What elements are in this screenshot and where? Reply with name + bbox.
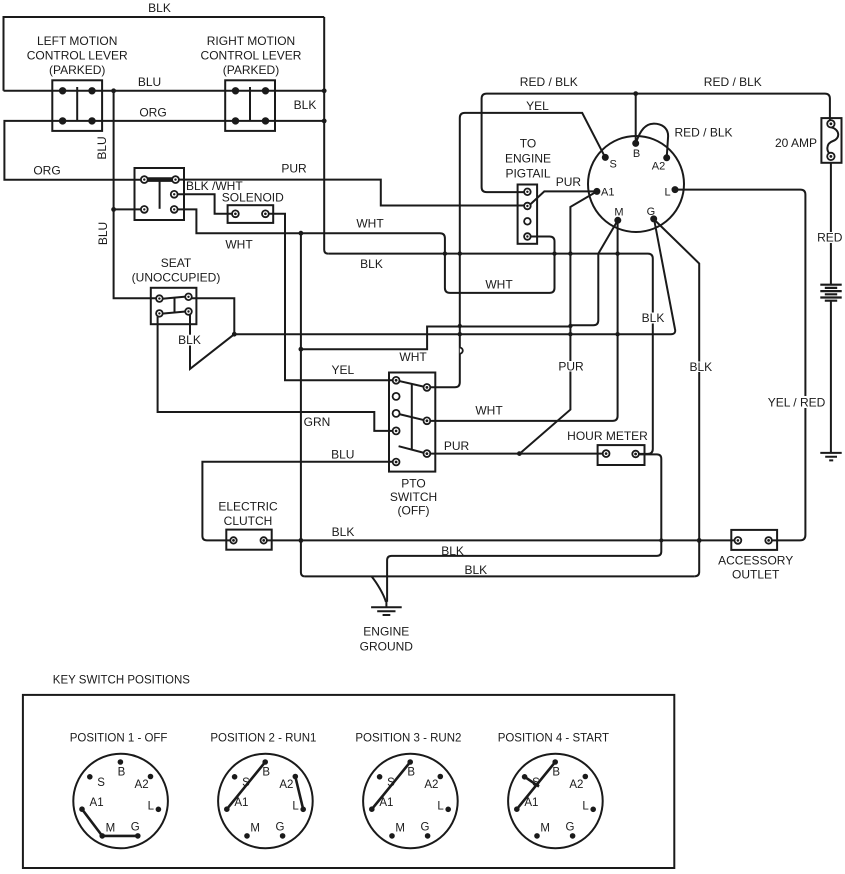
- wire BLK1 clutch to accessory outlet: [267, 539, 735, 541]
- svg-text:BLK: BLK: [464, 563, 487, 577]
- wire PTO R2 up to key switch M vertical: [430, 222, 617, 421]
- node PUR joins hour meter wire: [517, 451, 522, 456]
- wire WHT from interlock lower-right, loop to pigtail T4: [178, 209, 555, 293]
- key position 2 terminal L: [300, 807, 306, 813]
- accessory outlet terminals: [735, 537, 742, 544]
- svg-text:OUTLET: OUTLET: [732, 568, 780, 582]
- svg-text:YEL: YEL: [526, 99, 549, 113]
- wire B vertical to RED/BLK bus: [635, 94, 637, 141]
- key switch terminal B: [633, 141, 638, 146]
- svg-text:PUR: PUR: [281, 162, 307, 176]
- key switch terminal A2: [664, 155, 669, 160]
- svg-text:G: G: [647, 206, 656, 218]
- wire BLK/WHT to solenoid: [178, 194, 232, 214]
- svg-text:A1: A1: [90, 797, 104, 809]
- key position 2 terminal G: [280, 833, 286, 839]
- node BLK1 x661 junction: [659, 538, 663, 542]
- svg-text:G: G: [421, 822, 430, 834]
- key position 4 terminal A1: [514, 806, 520, 812]
- wire battery to chassis ground: [830, 301, 832, 453]
- chassis ground symbol (battery): [820, 453, 841, 461]
- engine ground symbol: [371, 607, 402, 615]
- svg-text:ORG: ORG: [33, 164, 60, 178]
- PTO terminals left: [393, 377, 400, 384]
- svg-text:BLK: BLK: [148, 1, 171, 15]
- electric clutch terminals: [230, 537, 236, 543]
- svg-text:BLU: BLU: [96, 222, 110, 245]
- svg-text:RIGHT MOTION: RIGHT MOTION: [207, 34, 295, 48]
- key position 3 terminal L: [445, 807, 451, 813]
- svg-text:YEL / RED: YEL / RED: [768, 396, 826, 410]
- svg-text:HOUR METER: HOUR METER: [567, 429, 648, 443]
- label YEL / RED (knockout): [767, 396, 827, 408]
- svg-text:BLK: BLK: [178, 333, 201, 347]
- key position 2 terminal M: [244, 833, 250, 839]
- svg-text:POSITION 2 - RUN1: POSITION 2 - RUN1: [210, 733, 316, 745]
- fuse element S-curve: [827, 127, 838, 154]
- wire L to accessory outlet YEL/RED: [678, 190, 806, 541]
- interlock actuator line: [159, 181, 161, 209]
- key switch terminal A1: [594, 189, 599, 194]
- left motion control lever switch box: [52, 80, 102, 131]
- key position 2 terminal B: [262, 759, 268, 765]
- svg-text:B: B: [552, 766, 560, 778]
- key position 3 circle: [363, 754, 458, 849]
- wire engine ground funnel left branch: [372, 576, 386, 601]
- wire BLU vertical branch down to seat switch: [114, 91, 156, 298]
- PTO terminals right: [424, 384, 431, 391]
- battery symbol: [820, 285, 841, 301]
- wire solenoid right to YEL into PTO T1: [269, 214, 393, 380]
- svg-text:M: M: [614, 207, 623, 219]
- node interlock stub junction: [111, 207, 116, 212]
- solenoid box: [228, 205, 274, 223]
- svg-text:PUR: PUR: [556, 175, 582, 189]
- accessory outlet box: [731, 530, 777, 550]
- svg-text:(PARKED): (PARKED): [49, 63, 105, 77]
- interlock wire through top contacts (ORG/PUR row): [141, 180, 524, 206]
- wire PTO R3 / PUR to hour meter: [430, 453, 602, 455]
- svg-text:BLK: BLK: [689, 360, 712, 374]
- svg-text:TO: TO: [520, 137, 536, 151]
- key position 1 terminal G: [135, 833, 141, 839]
- key position 2 terminal S: [232, 774, 238, 780]
- svg-text:CLUTCH: CLUTCH: [224, 514, 273, 528]
- wire BLK right vertical x=324 down to BLK bus H1: [324, 17, 328, 254]
- svg-text:M: M: [395, 823, 405, 835]
- key position 4 contact bar S-MID: [525, 777, 539, 787]
- svg-text:ACCESSORY: ACCESSORY: [718, 554, 793, 568]
- wire BLK top loop (outer rectangle left/top edge): [4, 17, 325, 91]
- key position 1 terminal B: [118, 759, 124, 765]
- key position 4 terminal M: [534, 833, 540, 839]
- svg-text:M: M: [540, 823, 550, 835]
- svg-text:M: M: [106, 823, 116, 835]
- wire pigtail T2 diagonal to A1 wire: [530, 191, 594, 204]
- svg-text:(UNOCCUPIED): (UNOCCUPIED): [132, 271, 221, 285]
- svg-text:LEFT MOTION: LEFT MOTION: [37, 34, 117, 48]
- node B junction on RED/BLK bus: [633, 91, 638, 96]
- key position 4 circle: [508, 754, 603, 849]
- PTO blades: [396, 380, 427, 387]
- svg-text:CONTROL LEVER: CONTROL LEVER: [27, 49, 128, 63]
- PTO switch box: [389, 373, 435, 472]
- key position 3 terminal B: [407, 759, 413, 765]
- interlock closed contact bar: [148, 177, 172, 182]
- svg-text:L: L: [148, 801, 155, 813]
- svg-text:YEL: YEL: [331, 363, 354, 377]
- pigtail terminals: [524, 189, 531, 196]
- svg-text:SEAT: SEAT: [161, 256, 192, 270]
- svg-text:A2: A2: [135, 779, 149, 791]
- key switch terminal M: [615, 218, 620, 223]
- svg-text:RED / BLK: RED / BLK: [675, 126, 733, 140]
- wire BLU row through both lever switches: [4, 90, 325, 92]
- wire B to A2 hook: [636, 124, 668, 155]
- svg-text:20 AMP: 20 AMP: [775, 136, 817, 150]
- key position 3 terminal A2: [438, 774, 444, 780]
- key position 1 contact bar A1-M: [82, 809, 102, 836]
- svg-text:POSITION 4 - START: POSITION 4 - START: [498, 733, 609, 745]
- label BLK seat (knockout): [177, 335, 202, 346]
- node BLU branch junction: [111, 88, 116, 93]
- key switch circle: [588, 136, 684, 232]
- PTO blade link: [411, 384, 413, 450]
- wire G diagonal to BLK vertical: [656, 221, 700, 577]
- right lever terminals: [233, 88, 239, 94]
- fuse terminals: [827, 120, 834, 127]
- svg-text:WHT: WHT: [485, 278, 513, 292]
- key switch terminal S: [603, 155, 608, 160]
- svg-text:GROUND: GROUND: [360, 640, 414, 654]
- label PUR vertical (knockout): [558, 361, 585, 372]
- svg-text:POSITION 1 - OFF: POSITION 1 - OFF: [70, 733, 168, 745]
- svg-text:G: G: [276, 822, 285, 834]
- wire WHT M-line: Z path from x=301 vertical to H2: [301, 327, 571, 350]
- key switch terminal G: [651, 216, 656, 221]
- svg-text:WHT: WHT: [475, 404, 503, 418]
- svg-text:L: L: [292, 801, 299, 813]
- wire vertical x=301 from WHT down to BLK3: [301, 233, 305, 576]
- key position 2 terminal A2: [293, 774, 299, 780]
- key position 1 contact bar M-G: [102, 835, 138, 838]
- svg-text:CONTROL LEVER: CONTROL LEVER: [201, 49, 302, 63]
- svg-text:BLU: BLU: [331, 448, 354, 462]
- node BLK1 x301 junction: [299, 538, 304, 543]
- svg-text:G: G: [131, 822, 140, 834]
- seat terminals: [156, 295, 163, 302]
- svg-text:PIGTAIL: PIGTAIL: [505, 166, 550, 180]
- fuse box 20 AMP: [821, 118, 841, 163]
- wire BLK bus H1 to hour meter ground drop: [328, 254, 653, 454]
- svg-text:GRN: GRN: [304, 415, 331, 429]
- svg-text:SOLENOID: SOLENOID: [222, 191, 284, 205]
- svg-text:(PARKED): (PARKED): [223, 63, 279, 77]
- node hop arc on R1 vertical: [460, 348, 463, 354]
- svg-text:ORG: ORG: [139, 106, 166, 120]
- wire PTO R1 up to YEL / key switch S: [430, 113, 605, 387]
- wire ORG row through both lever switches: [4, 121, 324, 180]
- svg-text:A2: A2: [569, 779, 583, 791]
- node BLK1 G-vertical junction: [697, 538, 702, 543]
- svg-text:BLK: BLK: [642, 311, 665, 325]
- key position 4 terminal S: [522, 774, 528, 780]
- key position 3 terminal M: [389, 833, 395, 839]
- node hop marks on H2/H3 crossings: [458, 324, 462, 328]
- svg-text:KEY SWITCH POSITIONS: KEY SWITCH POSITIONS: [53, 675, 190, 687]
- label RED (knockout): [817, 232, 845, 243]
- svg-text:BLK: BLK: [294, 98, 317, 112]
- svg-text:A2: A2: [652, 161, 665, 173]
- svg-text:(OFF): (OFF): [398, 503, 430, 517]
- node WHT junction to down vertical: [299, 231, 304, 236]
- svg-text:RED: RED: [817, 231, 843, 245]
- svg-text:BLU: BLU: [95, 136, 109, 159]
- svg-text:L: L: [582, 801, 589, 813]
- label BLK hour-meter ground vertical (knockout): [641, 313, 665, 324]
- wire interlock relay lower-left stub: [114, 208, 141, 210]
- key position 4 terminal G: [570, 833, 576, 839]
- key position 4 contact bar A1-B: [517, 762, 555, 809]
- node hop marks on BLK bus H1: [443, 251, 447, 255]
- wire seat top-right to BLK junction: [192, 298, 235, 334]
- wire BLK3 ground bus: [305, 575, 694, 577]
- left lever blade link: [76, 87, 78, 121]
- node BLU row end junction: [322, 88, 327, 93]
- svg-text:PTO: PTO: [401, 477, 425, 491]
- wire hour meter right to BLK2 ground line: [387, 454, 661, 601]
- svg-text:L: L: [665, 186, 671, 198]
- key position 3 terminal G: [425, 833, 431, 839]
- svg-text:S: S: [97, 777, 105, 789]
- label BLK G vertical (knockout): [689, 362, 710, 373]
- hour meter box: [598, 445, 645, 465]
- svg-text:B: B: [262, 766, 270, 778]
- interlock relay box: [135, 168, 185, 220]
- svg-text:RED / BLK: RED / BLK: [704, 75, 762, 89]
- svg-text:B: B: [407, 766, 415, 778]
- seat switch blades: [159, 296, 188, 299]
- key position 2 contact bar A2-L: [295, 777, 303, 810]
- svg-text:M: M: [250, 823, 260, 835]
- key position 3 terminal A1: [369, 806, 375, 812]
- svg-text:S: S: [610, 159, 617, 171]
- svg-text:PUR: PUR: [558, 360, 584, 374]
- wire seat BLK diagonal return: [190, 315, 234, 369]
- wire fuse to battery RED: [830, 163, 832, 285]
- key position 1 terminal M: [99, 833, 105, 839]
- svg-text:POSITION 3 - RUN2: POSITION 3 - RUN2: [355, 733, 461, 745]
- right motion control lever switch box: [225, 80, 275, 131]
- svg-text:B: B: [118, 766, 126, 778]
- key position 3 terminal S: [377, 774, 383, 780]
- wire BLK bus H3 to key switch G: [234, 222, 675, 334]
- svg-text:BLK: BLK: [441, 544, 464, 558]
- wire BLU from clutch loop to PTO T5: [202, 462, 392, 541]
- svg-text:G: G: [566, 822, 575, 834]
- svg-text:RED / BLK: RED / BLK: [520, 75, 578, 89]
- key position 4 terminal L: [590, 807, 596, 813]
- key position 4 terminal A2: [583, 774, 589, 780]
- key position 1 circle: [73, 754, 168, 849]
- svg-text:ENGINE: ENGINE: [505, 152, 551, 166]
- wire H2 right segment to key switch M diagonal: [570, 223, 616, 326]
- key position 1 terminal L: [156, 807, 162, 813]
- solenoid terminals: [232, 210, 239, 217]
- left lever terminals: [60, 88, 66, 94]
- svg-text:A2: A2: [424, 779, 438, 791]
- engine ground stem: [385, 600, 387, 607]
- wire PUR vertical from A1 down to hour meter feed: [521, 193, 595, 453]
- key position 3 contact bar A1-B: [372, 762, 410, 809]
- svg-text:A1: A1: [601, 187, 614, 199]
- key switch positions outer rectangle: [23, 695, 674, 868]
- svg-text:WHT: WHT: [399, 350, 427, 364]
- key position 1 terminal S: [87, 774, 93, 780]
- hour meter terminals: [603, 450, 610, 457]
- node ORG row end junction: [322, 119, 327, 124]
- svg-text:WHT: WHT: [356, 217, 384, 231]
- right lever blade link: [249, 87, 251, 121]
- key position 2 terminal A1: [224, 806, 230, 812]
- svg-text:ELECTRIC: ELECTRIC: [218, 500, 278, 514]
- svg-text:PUR: PUR: [444, 439, 470, 453]
- key position 1 terminal A1: [79, 806, 85, 812]
- key position 1 terminal A2: [148, 774, 154, 780]
- svg-text:B: B: [633, 148, 640, 160]
- svg-text:BLK: BLK: [332, 525, 355, 539]
- svg-text:A2: A2: [279, 779, 293, 791]
- svg-text:SWITCH: SWITCH: [390, 490, 437, 504]
- seat switch box: [151, 288, 197, 324]
- key position 2 circle: [218, 754, 313, 849]
- svg-text:L: L: [437, 801, 444, 813]
- electric clutch box: [226, 530, 271, 550]
- svg-text:WHT: WHT: [225, 238, 253, 252]
- wire RED/BLK top bus: [482, 94, 830, 193]
- wire seat bottom-left down to GRN into PTO T4: [158, 317, 393, 431]
- key position 4 terminal B: [552, 759, 558, 765]
- svg-text:BLK: BLK: [360, 257, 383, 271]
- svg-text:BLU: BLU: [138, 75, 161, 89]
- node WHT M-line T junction: [299, 347, 304, 352]
- key switch terminal L: [672, 187, 677, 192]
- svg-text:ENGINE: ENGINE: [363, 625, 409, 639]
- engine pigtail connector box: [518, 185, 538, 244]
- key position 2 contact bar A1-B: [227, 762, 265, 809]
- node seat BLK junction: [232, 332, 237, 337]
- interlock terminals: [141, 176, 148, 183]
